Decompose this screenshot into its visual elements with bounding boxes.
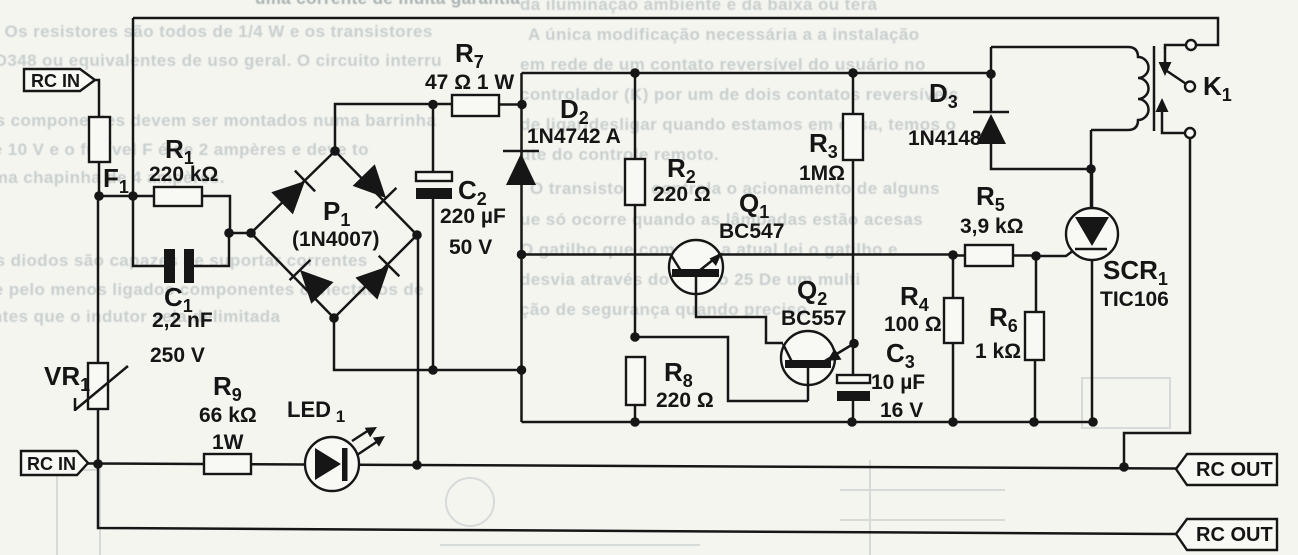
wire D2 column [520, 73, 523, 422]
junction [1088, 417, 1098, 427]
svg-text:RC IN: RC IN [31, 71, 80, 91]
svg-text:Os diodos são capazes de supor: Os diodos são capazes de suportar corren… [0, 251, 368, 270]
zener diode D2 [503, 94, 621, 185]
svg-text:R7: R7 [455, 38, 484, 72]
junction [1029, 417, 1039, 427]
wire node row to R1 [99, 195, 154, 198]
wire coil bottom to SCR anode [1090, 130, 1093, 208]
wire LED rail / upper RC OUT rail [88, 464, 1176, 469]
svg-text:da iluminação ambiente e da ba: da iluminação ambiente e da baixa ou ter… [520, 0, 878, 14]
svg-text:A única modificação necessária: A única modificação necessária a a insta… [528, 25, 920, 44]
junction [630, 332, 640, 342]
svg-text:50 V: 50 V [449, 236, 492, 259]
resistor R2 [625, 73, 711, 337]
svg-text:R9: R9 [213, 371, 242, 405]
svg-text:1MΩ: 1MΩ [799, 162, 845, 185]
svg-text:O transistor 1 controla o acio: O transistor 1 controla o acionamento de… [530, 179, 940, 198]
junction [412, 460, 422, 470]
wire VR1 to bottom node [97, 409, 100, 464]
wire bottom contact to RC OUT rail [1124, 138, 1190, 467]
capacitor C2 [416, 104, 506, 370]
svg-text:250 V: 250 V [150, 344, 205, 367]
wire Q1 base zigzag to Q2 [696, 277, 783, 343]
resistor R1 [149, 134, 218, 206]
LED LED1 [287, 397, 385, 491]
resistor R4 [884, 255, 963, 422]
junction [246, 228, 256, 238]
wire bottom rail of control circuit [522, 421, 1094, 424]
svg-text:D3: D3 [929, 78, 958, 112]
svg-text:1N4148: 1N4148 [908, 127, 982, 150]
svg-text:47 Ω 1 W: 47 Ω 1 W [425, 71, 514, 94]
wire top rail left vertical [132, 18, 135, 196]
wire R7 right [499, 103, 522, 106]
resistor R7 [425, 38, 514, 116]
transistor Q1 [669, 188, 784, 294]
wire SCR gate [1036, 250, 1074, 256]
wire positive rail2 [522, 72, 992, 75]
junction [517, 365, 527, 375]
svg-text:2,2 nF: 2,2 nF [152, 309, 213, 332]
svg-text:16 V: 16 V [880, 399, 923, 422]
resistor R3 [799, 73, 863, 375]
bridge rectifier P1 [251, 151, 417, 318]
junction [329, 313, 339, 323]
background bleed-through text right column [520, 0, 959, 319]
wire fuse to node [98, 162, 101, 196]
svg-text:1N4742 A: 1N4742 A [527, 125, 621, 148]
svg-text:R5: R5 [976, 181, 1005, 215]
wire bottom left vertical and lower RC OUT rail [98, 464, 1176, 534]
junction [517, 100, 527, 110]
background bleed-through text left column [0, 0, 520, 326]
svg-text:1W: 1W [212, 431, 244, 454]
junction [330, 146, 340, 156]
junction [849, 339, 859, 349]
svg-text:K1: K1 [1203, 71, 1232, 105]
thyristor SCR1 [1066, 169, 1169, 422]
wire C1 branch left [133, 196, 164, 266]
resistor R9 [199, 371, 257, 474]
wire top rail [133, 18, 1218, 45]
junction [847, 417, 857, 427]
wire bridge top to R7 rail [335, 104, 452, 151]
svg-text:BC557: BC557 [781, 307, 846, 330]
junction [1119, 462, 1129, 472]
capacitor C3 [837, 338, 925, 422]
node RC OUT (upper output terminal) [1176, 454, 1277, 485]
fuse F1 [89, 117, 129, 197]
svg-text:BC547: BC547 [719, 220, 784, 243]
wire C1 to junction [194, 233, 229, 266]
junction [1086, 164, 1096, 174]
wire Q1 rail left [522, 253, 672, 256]
svg-text:220 Ω: 220 Ω [656, 389, 714, 412]
junction [1031, 251, 1041, 261]
svg-text:LED 1: LED 1 [287, 397, 345, 426]
svg-text:controlador (K) por um de dois: controlador (K) por um de dois contatos … [520, 85, 959, 104]
resistor R6 [975, 256, 1044, 422]
junction [948, 417, 958, 427]
wire R1 to bridge [202, 196, 251, 233]
svg-text:Se pelo menos ligados componen: Se pelo menos ligados componentes conect… [0, 280, 424, 299]
junction [224, 228, 234, 238]
svg-text:RC OUT: RC OUT [1196, 459, 1273, 481]
svg-text:RC OUT: RC OUT [1196, 524, 1273, 546]
svg-text:66 kΩ: 66 kΩ [199, 404, 257, 427]
relay K1 coil [991, 46, 1232, 131]
capacitor C1 [150, 249, 213, 367]
svg-text:— Os resistores são todos de 1: — Os resistores são todos de 1/4 W e os … [0, 22, 433, 41]
junction [848, 68, 858, 78]
svg-text:220 Ω: 220 Ω [653, 183, 711, 206]
svg-text:Os componentes devem ser monta: Os componentes devem ser montados numa b… [0, 111, 436, 130]
svg-text:SCR1: SCR1 [1103, 255, 1168, 289]
wire left column down [97, 196, 100, 363]
svg-text:100 Ω: 100 Ω [884, 313, 942, 336]
svg-text:RC IN: RC IN [27, 454, 76, 474]
svg-text:BD348 ou equivalentes de uso g: BD348 ou equivalentes de uso geral. O ci… [0, 51, 442, 70]
wire bridge bottom rail [334, 318, 522, 370]
svg-text:em rede de um contato reversív: em rede de um contato reversível do usuá… [520, 55, 926, 74]
junction [948, 250, 958, 260]
junction [986, 69, 996, 79]
svg-text:C2: C2 [458, 175, 487, 209]
svg-text:uma corrente de muita garantia: uma corrente de muita garantia [255, 0, 520, 8]
svg-text:3,9 kΩ: 3,9 kΩ [960, 215, 1024, 238]
svg-text:(1N4007): (1N4007) [292, 228, 380, 251]
svg-text:R6: R6 [989, 302, 1018, 336]
junction [428, 365, 438, 375]
svg-text:VR1: VR1 [44, 361, 90, 395]
junction [412, 230, 422, 240]
varistor VR1 [44, 361, 128, 411]
svg-text:P1: P1 [323, 196, 350, 230]
svg-text:220 µF: 220 µF [440, 205, 506, 228]
node RC IN (bottom input terminal) [21, 451, 88, 475]
junction [630, 417, 640, 427]
svg-text:220 kΩ: 220 kΩ [149, 163, 218, 186]
diode D3 [908, 47, 1091, 169]
wire Q1 rail right [721, 253, 953, 256]
resistor R8 [626, 357, 714, 422]
wire RC IN top to fuse [95, 80, 99, 117]
wire bridge right vertex down to LED rail [417, 235, 420, 465]
junction [93, 459, 103, 469]
junction [94, 191, 104, 201]
svg-text:10 µF: 10 µF [871, 371, 925, 394]
transistor Q2 [781, 275, 854, 401]
junction [428, 100, 438, 110]
node RC OUT (lower output terminal) [1176, 519, 1277, 550]
faint figure fragments below [57, 378, 1170, 555]
svg-text:antes que o indutor seja delim: antes que o indutor seja delimitada [0, 307, 280, 326]
svg-text:C3: C3 [886, 338, 915, 372]
svg-text:R4: R4 [900, 281, 929, 315]
junction [128, 191, 138, 201]
relay K1 contacts [1156, 40, 1197, 138]
resistor R5 [953, 181, 1036, 266]
svg-text:TIC106: TIC106 [1100, 288, 1169, 311]
node RC IN (top input terminal) [24, 69, 95, 91]
svg-text:1 kΩ: 1 kΩ [975, 340, 1021, 363]
svg-text:R8: R8 [664, 357, 693, 391]
junction [517, 250, 527, 260]
junction [630, 68, 640, 78]
wire R8 rail to Q2 base [635, 337, 808, 401]
